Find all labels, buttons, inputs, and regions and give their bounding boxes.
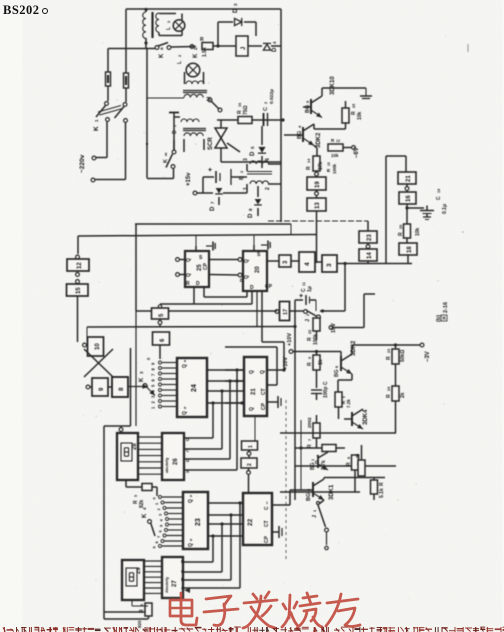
svg-text:4: 4 <box>265 158 271 161</box>
svg-text:25: 25 <box>352 104 356 108</box>
svg-text:D: D <box>250 151 256 156</box>
svg-text:11: 11 <box>302 282 306 286</box>
svg-text:1k: 1k <box>318 359 324 365</box>
svg-text:16: 16 <box>238 103 242 107</box>
svg-text:BG: BG <box>297 131 303 139</box>
svg-text:K: K <box>139 377 145 382</box>
svg-text:CP: CP <box>261 402 267 410</box>
svg-text:10: 10 <box>437 189 441 193</box>
svg-text:10k: 10k <box>415 227 421 236</box>
svg-text:Q: Q <box>188 543 194 547</box>
svg-text:L: L <box>177 61 183 64</box>
svg-text:Q: Q <box>249 370 255 374</box>
svg-text:+10V: +10V <box>287 333 293 346</box>
svg-text:2-16: 2-16 <box>443 302 449 313</box>
svg-text:CP: CP <box>265 284 273 290</box>
svg-text:9: 9 <box>308 357 312 359</box>
svg-text:Q: Q <box>260 370 266 374</box>
svg-text:a: a <box>184 359 186 363</box>
svg-text:Abcdefg: Abcdefg <box>164 576 169 593</box>
svg-text:R: R <box>386 394 392 398</box>
svg-text:2k: 2k <box>400 392 406 398</box>
svg-text:BG: BG <box>306 493 312 501</box>
svg-text:+15v: +15v <box>186 172 192 186</box>
svg-text:R: R <box>139 609 145 613</box>
svg-text:K: K <box>159 53 165 58</box>
svg-text:5: 5 <box>134 495 138 497</box>
svg-text:R: R <box>386 356 392 360</box>
svg-text:2: 2 <box>247 463 253 466</box>
svg-text:18: 18 <box>407 246 413 253</box>
svg-text:BG: BG <box>305 105 311 113</box>
svg-text:7: 7 <box>308 439 312 441</box>
svg-text:82k: 82k <box>139 499 145 508</box>
svg-text:1: 1 <box>266 501 268 505</box>
svg-text:3: 3 <box>326 263 333 267</box>
svg-text:820: 820 <box>137 620 142 628</box>
svg-text:26: 26 <box>173 458 179 465</box>
svg-text:0.022μ: 0.022μ <box>269 89 275 104</box>
svg-text:13: 13 <box>336 139 340 143</box>
svg-text:Q: Q <box>186 273 192 277</box>
svg-text:19: 19 <box>315 181 321 188</box>
svg-text:C: C <box>264 506 270 510</box>
svg-text:b: b <box>190 538 192 542</box>
svg-text:17: 17 <box>283 309 289 315</box>
svg-text:50kΩ: 50kΩ <box>400 350 406 362</box>
svg-text:C: C <box>263 107 269 111</box>
svg-text:23: 23 <box>367 234 373 241</box>
svg-text:4: 4 <box>304 262 311 266</box>
svg-text:B: B <box>239 176 245 180</box>
svg-text:J: J <box>241 47 247 50</box>
svg-text:10: 10 <box>95 343 101 350</box>
svg-text:D: D <box>248 213 254 218</box>
svg-text:Q: Q <box>182 411 188 415</box>
svg-text:5.1k: 5.1k <box>379 488 385 498</box>
svg-text:75Ω: 75Ω <box>243 105 249 115</box>
svg-text:9: 9 <box>342 396 346 398</box>
svg-text:2002: 2002 <box>307 417 313 428</box>
svg-text:21: 21 <box>251 388 257 395</box>
svg-text:7.2k: 7.2k <box>346 399 351 408</box>
svg-text:K: K <box>163 159 169 163</box>
svg-text:100p: 100p <box>323 387 329 398</box>
svg-text:~220v: ~220v <box>79 154 86 173</box>
svg-text:37k: 37k <box>318 161 324 170</box>
svg-text:C: C <box>436 196 442 200</box>
svg-text:24: 24 <box>191 384 198 392</box>
svg-text:BG: BG <box>334 369 340 377</box>
svg-text:16: 16 <box>406 195 412 202</box>
svg-text:R: R <box>200 37 204 43</box>
svg-text:R: R <box>398 232 404 236</box>
svg-text:R: R <box>379 482 385 486</box>
svg-text:K: K <box>93 126 100 131</box>
svg-text:20: 20 <box>399 225 403 229</box>
svg-text:abcdefg: abcdefg <box>164 457 169 473</box>
svg-text:R: R <box>356 454 360 460</box>
svg-text:2: 2 <box>265 187 271 190</box>
svg-text:R: R <box>240 278 246 282</box>
svg-text:+: + <box>208 167 212 174</box>
svg-text:–3V: –3V <box>425 351 431 362</box>
svg-text:27: 27 <box>172 580 178 587</box>
svg-text:C: C <box>323 381 329 385</box>
svg-text:10k: 10k <box>331 153 339 158</box>
svg-text:15: 15 <box>76 287 82 294</box>
svg-text:D: D <box>196 281 200 287</box>
svg-text:Q: Q <box>249 407 255 411</box>
svg-text:8: 8 <box>347 457 351 459</box>
svg-text:m: m <box>163 152 168 156</box>
svg-text:23: 23 <box>387 349 391 353</box>
svg-text:13: 13 <box>315 202 321 209</box>
svg-text:1.5k: 1.5k <box>202 47 208 57</box>
svg-text:BG: BG <box>310 462 316 470</box>
svg-text:3DK1: 3DK1 <box>329 484 335 500</box>
svg-text:Q: Q <box>188 499 194 503</box>
svg-text:14: 14 <box>367 252 373 259</box>
svg-text:3: 3 <box>167 21 171 23</box>
svg-text:8: 8 <box>118 387 125 391</box>
svg-text:0.1μ: 0.1μ <box>442 204 448 214</box>
svg-text:J: J <box>312 515 318 518</box>
svg-text:CT: CT <box>261 388 267 395</box>
svg-text:D: D <box>272 47 278 52</box>
svg-text:R: R <box>307 362 313 366</box>
svg-text:D: D <box>233 8 239 13</box>
svg-text:Q: Q <box>186 258 192 262</box>
svg-text:R: R <box>346 462 352 466</box>
svg-text:+10V: +10V <box>283 357 289 370</box>
svg-text:Q: Q <box>182 364 188 368</box>
svg-text:L: L <box>166 27 172 30</box>
svg-text:a: a <box>190 494 192 498</box>
svg-text:20: 20 <box>255 266 261 273</box>
svg-text:+: + <box>299 293 303 300</box>
svg-text:3DK2: 3DK2 <box>316 132 322 148</box>
svg-text:D: D <box>210 206 216 211</box>
svg-text:CT: CT <box>264 520 270 527</box>
svg-text:J: J <box>305 319 311 322</box>
svg-text:8: 8 <box>335 366 339 368</box>
svg-text:R: R <box>306 166 312 170</box>
svg-text:3: 3 <box>243 158 249 161</box>
svg-text:D: D <box>250 285 254 291</box>
svg-text:1: 1 <box>243 187 249 190</box>
svg-text:21: 21 <box>406 175 412 182</box>
svg-text:15: 15 <box>327 162 331 166</box>
svg-text:1: 1 <box>311 459 315 461</box>
svg-text:R: R <box>186 281 190 287</box>
svg-text:1μ: 1μ <box>307 286 313 292</box>
svg-text:3DK10: 3DK10 <box>330 76 336 95</box>
svg-text:B: B <box>172 130 178 134</box>
svg-text:22: 22 <box>247 518 254 526</box>
svg-text:b: b <box>184 406 186 410</box>
svg-text:28: 28 <box>132 443 138 450</box>
svg-text:CP: CP <box>264 535 270 543</box>
svg-text:1: 1 <box>248 445 254 448</box>
svg-text:K: K <box>142 513 148 518</box>
svg-text:K: K <box>193 53 199 58</box>
svg-text:CP: CP <box>203 262 209 270</box>
svg-text:23: 23 <box>195 518 202 526</box>
svg-text:SCR: SCR <box>208 137 214 150</box>
svg-text:U: U <box>186 458 189 463</box>
svg-text:12: 12 <box>77 262 83 269</box>
svg-text:10k: 10k <box>357 111 363 120</box>
svg-text:3DK4: 3DK4 <box>363 409 369 425</box>
svg-text:100k: 100k <box>332 163 337 174</box>
svg-text:Q: Q <box>244 259 250 263</box>
svg-text:22: 22 <box>308 330 312 334</box>
svg-text:–6V: –6V <box>354 147 360 158</box>
